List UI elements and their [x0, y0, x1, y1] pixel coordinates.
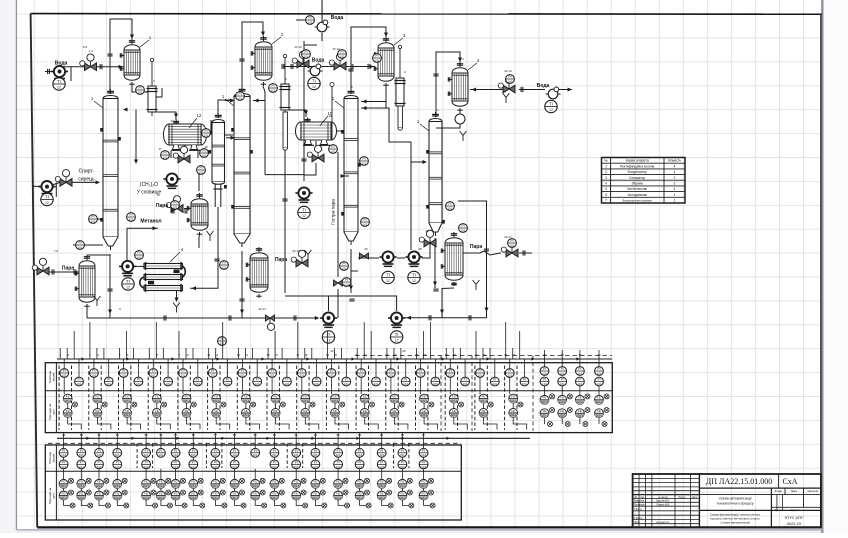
small vertical apparatus	[146, 58, 157, 116]
heat exchanger (vertical shell-and-tube)	[187, 193, 208, 236]
svg-text:№ докум.: № докум.	[658, 496, 668, 499]
valve V14 (feed)	[55, 170, 72, 187]
valve V13	[307, 145, 324, 162]
heat exchanger (vertical shell-and-tube)	[75, 255, 95, 308]
svg-text:Лукінюк М.В.: Лукінюк М.В.	[656, 504, 670, 507]
svg-text:4: 4	[605, 182, 607, 186]
title block	[633, 474, 821, 527]
svg-text:Арк.: Арк.	[775, 509, 780, 512]
svg-text:17: 17	[296, 353, 300, 357]
svg-text:Фазорозділювач-сировини: Фазорозділювач-сировини	[623, 200, 653, 203]
svg-text:1 2: 1 2	[89, 49, 94, 53]
svg-text:Назва апарата: Назва апарата	[626, 159, 649, 163]
svg-text:Жученко А.І.: Жученко А.І.	[656, 521, 670, 524]
wire: water feed to T1	[45, 71, 53, 73]
wire: K5 overhead	[218, 100, 233, 114]
svg-text:Перевірив: Перевірив	[634, 504, 646, 507]
band 1 frame	[45, 363, 612, 433]
svg-text:2: 2	[674, 182, 676, 186]
svg-text:2: 2	[674, 176, 676, 180]
horizontal heat exchanger drum	[296, 111, 337, 145]
band 1 instrument columns	[60, 359, 84, 430]
small vertical apparatus	[279, 54, 290, 114]
wire: methanol product	[127, 227, 158, 229]
svg-text:3: 3	[605, 176, 607, 180]
svg-text:Гостра пара: Гостра пара	[331, 199, 336, 225]
horizontal heat exchanger drum	[164, 113, 207, 150]
svg-text:Масштаб: Масштаб	[808, 490, 819, 493]
wire: raw alcohol feed	[72, 181, 96, 183]
svg-text:Пара: Пара	[156, 203, 168, 209]
svg-text:18: 18	[304, 353, 308, 357]
svg-text:55: 55	[174, 433, 178, 437]
svg-text:50: 50	[80, 433, 84, 437]
svg-text:Прилади: Прилади	[48, 452, 52, 465]
pump N1 (water)	[51, 66, 68, 82]
svg-text:34: 34	[156, 193, 160, 197]
svg-text:Вода: Вода	[537, 83, 550, 89]
band 1 right group (stacked)	[540, 359, 555, 427]
band 2 frame	[45, 445, 461, 520]
svg-text:6 8: 6 8	[83, 45, 88, 49]
svg-text:Кількість: Кількість	[668, 159, 681, 163]
pump under drum E1	[163, 173, 180, 189]
svg-text:Прилади: Прилади	[48, 371, 52, 384]
instrument band 2	[57, 437, 530, 439]
column K5 legs	[214, 185, 216, 208]
pump N4 (reflux)	[295, 187, 312, 203]
wire: water cross-line	[283, 66, 375, 68]
pump N8	[388, 312, 405, 328]
svg-text:4: 4	[674, 164, 676, 168]
svg-text:49: 49	[62, 433, 66, 437]
band 2 signal stubs and numbers	[63, 433, 65, 438]
hairpin feed pump	[119, 261, 136, 277]
wire: live steam line	[337, 152, 339, 277]
wire: top reflux pump riser	[303, 50, 305, 181]
valve V9	[419, 230, 436, 247]
svg-text:56: 56	[192, 433, 196, 437]
valve V12b live steam	[334, 280, 343, 286]
svg-text:13: 13	[237, 353, 241, 357]
band 2 instrument columns	[59, 438, 75, 508]
vents	[207, 231, 214, 241]
svg-text:18: 18	[204, 145, 208, 149]
svg-text:61: 61	[295, 433, 299, 437]
svg-text:33 34: 33 34	[292, 249, 300, 253]
svg-text:Аркушів: Аркушів	[791, 509, 800, 512]
heat exchanger (vertical shell-and-tube)	[120, 35, 152, 86]
svg-text:46 47: 46 47	[504, 235, 512, 239]
valve V4	[498, 76, 515, 93]
valve V10 (actuator below)	[266, 315, 275, 321]
svg-text:10 16: 10 16	[294, 45, 302, 49]
svg-text:19: 19	[326, 353, 330, 357]
distillation column	[91, 89, 118, 250]
svg-text:Схема автоматизації: Схема автоматизації	[719, 497, 752, 501]
instrument band 1	[57, 358, 612, 360]
svg-text:65: 65	[380, 433, 384, 437]
svg-text:Прилади на: Прилади на	[48, 403, 52, 420]
column nozzles	[100, 128, 103, 132]
svg-text:16: 16	[275, 353, 279, 357]
svg-text:Вода: Вода	[331, 15, 344, 21]
svg-text:58: 58	[233, 433, 237, 437]
svg-text:11: 11	[207, 353, 210, 357]
svg-text:59: 59	[254, 433, 258, 437]
heat exchanger (vertical shell-and-tube)	[448, 58, 480, 112]
svg-text:(СН₃)₂О: (СН₃)₂О	[140, 182, 159, 188]
svg-text:ЛА22-ХХ: ЛА22-ХХ	[787, 522, 802, 526]
svg-text:26: 26	[402, 349, 406, 353]
wire: steam to T6	[49, 271, 79, 273]
svg-text:Сепаратор: Сепаратор	[629, 176, 645, 180]
svg-text:№: №	[604, 159, 608, 163]
svg-text:Н. Контр.: Н. Контр.	[633, 518, 643, 520]
svg-text:Пара: Пара	[62, 266, 74, 272]
svg-text:Збірник: Збірник	[632, 182, 644, 186]
valve V3	[329, 53, 346, 70]
svg-text:Дата: Дата	[692, 497, 698, 499]
svg-text:НТУУ „КПІ”: НТУУ „КПІ”	[785, 516, 804, 520]
band 1 signal stubs and numbers	[59, 348, 61, 359]
distillation column	[417, 112, 442, 236]
pump N7	[320, 312, 337, 328]
wire: steam to T8	[463, 251, 501, 255]
svg-text:12: 12	[197, 113, 202, 118]
svg-text:67: 67	[422, 433, 426, 437]
wire: K5 side draw	[225, 134, 234, 136]
pump N3	[546, 87, 561, 99]
svg-text:17: 17	[158, 147, 162, 151]
svg-text:28: 28	[418, 247, 422, 251]
svg-text:Розробив: Розробив	[634, 501, 645, 503]
wire: K2 bottoms	[241, 251, 243, 318]
svg-text:місцеві: місцеві	[52, 453, 56, 462]
wire: header A	[285, 296, 397, 311]
wire: right recycle loop	[458, 201, 487, 318]
svg-text:1: 1	[605, 164, 607, 168]
svg-text:51: 51	[97, 433, 101, 437]
wire: cooling water right	[470, 89, 503, 91]
wire: header B	[87, 317, 318, 319]
svg-text:12: 12	[170, 119, 174, 123]
valve V8 (steam to T8)	[501, 240, 518, 257]
svg-text:Василів В.В.: Василів В.В.	[656, 500, 670, 503]
svg-text:57: 57	[214, 433, 218, 437]
sight glass S3 lower tube	[398, 106, 402, 130]
svg-text:Спирт-: Спирт-	[79, 169, 95, 175]
sight glass S2 lower tube	[283, 112, 287, 150]
pump N2	[308, 64, 323, 76]
band 2 dashed separators	[48, 442, 461, 444]
wire: K2 overhead to T2	[242, 22, 263, 92]
hairpin label	[170, 252, 180, 262]
valve V7 (steam to T7)	[291, 250, 308, 267]
svg-text:7: 7	[605, 199, 607, 203]
svg-text:1: 1	[674, 199, 676, 203]
svg-text:15: 15	[267, 353, 271, 357]
pump N6	[405, 251, 422, 267]
svg-text:Прилади на: Прилади на	[48, 487, 52, 504]
svg-text:Літера: Літера	[775, 490, 783, 493]
svg-text:14: 14	[245, 353, 249, 357]
svg-text:62: 62	[314, 433, 318, 437]
svg-text:ДП ЛА22.15.01.000: ДП ЛА22.15.01.000	[706, 477, 772, 486]
svg-text:щиті: щиті	[52, 409, 56, 415]
wire: K4 bottoms	[434, 238, 436, 288]
pipe network	[33, 0, 572, 318]
wire: K3 overhead to T3	[351, 27, 386, 94]
valve V12	[173, 146, 190, 163]
svg-text:Маса: Маса	[791, 490, 798, 493]
drawing frame	[31, 13, 822, 16]
equipment list table	[602, 158, 686, 204]
svg-text:54: 54	[159, 433, 163, 437]
wire: K1 bottoms	[109, 254, 111, 318]
flow arrows	[119, 65, 124, 69]
svg-text:Підпис: Підпис	[678, 496, 686, 499]
svg-text:Затв.: Затв.	[634, 522, 640, 524]
heat exchanger (vertical shell-and-tube)	[441, 232, 463, 286]
svg-text:52: 52	[116, 433, 120, 437]
svg-text:64: 64	[358, 433, 362, 437]
svg-text:сирець: сирець	[78, 176, 95, 182]
svg-text:63: 63	[337, 433, 341, 437]
wire: K5 bottoms	[190, 207, 218, 288]
svg-text:2: 2	[605, 170, 607, 174]
svg-text:42 44: 42 44	[504, 69, 512, 73]
small vertical apparatus	[394, 45, 405, 110]
svg-text:Пара: Пара	[275, 257, 287, 263]
svg-text:місцеві: місцеві	[52, 372, 56, 381]
svg-text:5: 5	[605, 187, 607, 191]
svg-text:Вода: Вода	[312, 58, 325, 64]
band 2 flow arrows on signal header	[86, 437, 90, 440]
svg-text:45: 45	[425, 229, 429, 233]
svg-text:щиті: щиті	[52, 493, 56, 499]
svg-text:60: 60	[273, 433, 277, 437]
wire: T1 condensate	[132, 86, 152, 92]
valve V5 (steam to T6)	[32, 258, 49, 275]
svg-text:4: 4	[674, 170, 676, 174]
svg-text:53: 53	[145, 433, 149, 437]
svg-text:Зм: Зм	[634, 497, 637, 499]
valve V11	[360, 253, 369, 259]
svg-text:20: 20	[334, 353, 338, 357]
valve V6 (steam to T5)	[166, 196, 183, 213]
valve with actuator V1	[80, 54, 97, 71]
band 1 flow arrows on signal header	[81, 357, 85, 360]
valve V2	[292, 51, 309, 68]
distillation column	[212, 113, 225, 184]
wire: K1 overhead vapour to T1	[110, 19, 132, 94]
heat exchanger (vertical shell-and-tube)	[246, 247, 268, 298]
sheet edges	[15, 0, 17, 530]
svg-text:66: 66	[401, 433, 405, 437]
svg-text:7 8: 7 8	[54, 249, 59, 253]
svg-text:22 24: 22 24	[258, 307, 266, 311]
svg-text:Вода: Вода	[55, 61, 68, 67]
svg-text:6: 6	[605, 193, 607, 197]
svg-text:СхА: СхА	[782, 477, 797, 486]
svg-text:Ректифікаційна колона: Ректифікаційна колона	[620, 164, 654, 168]
svg-text:12: 12	[215, 353, 219, 357]
pump N5	[379, 251, 396, 267]
hairpin mid supports	[174, 270, 180, 274]
heat exchanger (vertical shell-and-tube)	[374, 33, 406, 87]
svg-text:Холодильник: Холодильник	[627, 193, 647, 197]
svg-text:4: 4	[674, 187, 676, 191]
svg-text:/ схема автоматизації: / схема автоматизації	[720, 521, 750, 525]
heat exchanger (vertical shell-and-tube)	[251, 32, 284, 86]
svg-text:Пара: Пара	[470, 244, 482, 250]
distillation column	[332, 89, 358, 245]
distillation column	[222, 87, 250, 247]
svg-text:15 16: 15 16	[332, 47, 340, 51]
svg-text:10: 10	[328, 114, 332, 118]
svg-text:Т. Контр.: Т. Контр.	[633, 509, 643, 511]
svg-text:Кип'ятильник: Кип'ятильник	[627, 187, 647, 191]
pipe flanges	[99, 64, 101, 69]
field instruments	[89, 215, 98, 224]
svg-text:26: 26	[364, 247, 368, 251]
svg-text:1: 1	[674, 193, 676, 197]
svg-text:Метанол: Метанол	[140, 219, 161, 225]
wire: K4 overhead to T4	[436, 52, 460, 117]
svg-text:10: 10	[185, 353, 189, 357]
svg-text:технологічного процесу: технологічного процесу	[717, 502, 754, 506]
wire: K3 bottoms	[351, 249, 358, 271]
hairpin outlet	[176, 291, 178, 301]
svg-text:Конденсатор: Конденсатор	[628, 170, 647, 174]
band 1 dashed group separators	[58, 366, 60, 431]
